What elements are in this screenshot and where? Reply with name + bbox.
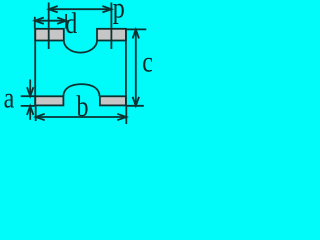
body right edge (125, 29, 127, 106)
arrow d left (35, 18, 44, 24)
arrow d right (57, 18, 66, 24)
arrow a down (27, 87, 33, 96)
dim line c (135, 29, 137, 105)
pad top-right (97, 29, 126, 41)
d extension right (65, 14, 67, 29)
dim line b (36, 116, 127, 118)
dim line p (49, 8, 112, 10)
U notch top middle (64, 41, 97, 53)
svg-text:p: p (113, 0, 125, 24)
pad top-left (35, 29, 64, 41)
arrow c bottom (133, 97, 139, 106)
arrow p right (102, 6, 111, 12)
a extension top (21, 95, 36, 97)
b extension left (35, 107, 37, 122)
svg-text:d: d (65, 6, 77, 39)
a extension bottom (21, 105, 36, 107)
svg-text:a: a (4, 81, 15, 114)
pad bottom-right (100, 96, 126, 105)
arrow a up (27, 106, 33, 115)
d extension left (34, 17, 36, 29)
svg-text:c: c (142, 45, 152, 78)
a arrow line lower (29, 106, 31, 120)
body left edge (34, 29, 36, 106)
lead line right (p extension) (110, 3, 112, 50)
c extension top (126, 28, 146, 30)
arrow c top (133, 29, 139, 38)
a arrow line upper (29, 80, 31, 97)
lead line left (p extension) (48, 3, 50, 50)
b extension right (125, 106, 127, 124)
arrow b right (117, 114, 126, 120)
dim line d (35, 20, 66, 22)
arrow p left (49, 6, 58, 12)
pad bottom-left (35, 96, 63, 105)
svg-text:b: b (77, 90, 89, 123)
c extension bottom (126, 105, 144, 107)
arch bottom middle (63, 84, 99, 96)
arrow b left (36, 114, 45, 120)
background (0, 0, 152, 125)
